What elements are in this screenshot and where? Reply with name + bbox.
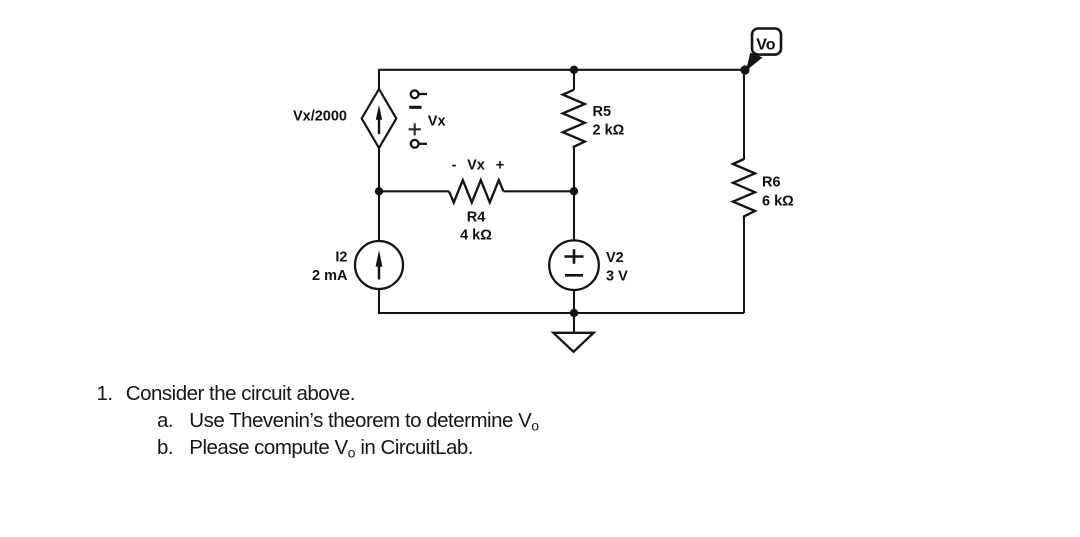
svg-text:3 V: 3 V (606, 269, 628, 285)
svg-text:Vo: Vo (756, 36, 775, 53)
wire middle horizontal left segment (left column to R4) (379, 190, 449, 192)
svg-text:V2: V2 (606, 250, 624, 266)
label - Vx + (across R4) (452, 158, 505, 174)
node junction dot left-middle (375, 187, 383, 195)
svg-text:2 kΩ: 2 kΩ (593, 123, 625, 139)
svg-text:R6: R6 (762, 175, 781, 191)
wire left column bottom (I2 to bottom wire) (378, 289, 380, 314)
voltmeter probe Vx (terminals) (409, 90, 427, 147)
label I2 2 mA (312, 249, 348, 284)
wire ground stem (573, 313, 575, 333)
wire top horizontal from left column to Vo node (379, 69, 745, 71)
wire right column top (Vo node to R6) (743, 70, 745, 160)
label V2 3 V (606, 250, 628, 285)
svg-text:Vx: Vx (428, 114, 446, 130)
question text line b (0, 435, 1, 437)
wire right column bottom (R6 to bottom wire) (743, 217, 745, 313)
resistor R6 (vertical zigzag) (733, 159, 755, 218)
voltage source V2 (circle with plus minus) (549, 240, 599, 290)
wire bottom horizontal from left column to right column (379, 312, 744, 314)
wire left column (mid node to current source I2) (378, 191, 380, 241)
node Vo junction dot top right (740, 65, 749, 74)
wire middle column top (top wire to R5) (573, 70, 575, 90)
question text line a (0, 408, 1, 410)
svg-text:R4: R4 (467, 210, 486, 226)
resistor R4 (horizontal zigzag) (449, 180, 504, 202)
wire left column top (top wire to dependent source) (378, 69, 380, 89)
svg-text:6 kΩ: 6 kΩ (762, 193, 794, 209)
resistor R5 (vertical zigzag) (563, 90, 585, 148)
svg-text:Vx/2000: Vx/2000 (293, 108, 347, 124)
label Vx/2000 (293, 108, 347, 124)
wire middle column bottom (V2 to bottom wire) (573, 290, 575, 313)
ground symbol (553, 333, 593, 352)
node junction dot bottom middle (570, 309, 578, 317)
label R5 2 kOhm (593, 104, 625, 139)
svg-text:Vx: Vx (467, 158, 485, 174)
wire middle horizontal right segment (R4 to middle column) (504, 190, 575, 192)
svg-text:I2: I2 (335, 249, 347, 265)
node junction dot middle-middle (570, 187, 578, 195)
question text line 1 (0, 381, 1, 383)
wire left column middle (dependent source to mid node) (378, 148, 380, 191)
label R4 4 kOhm (460, 210, 492, 244)
node junction dot top middle (R5 tap) (570, 66, 578, 74)
svg-text:4 kΩ: 4 kΩ (460, 228, 492, 244)
svg-text:+: + (496, 158, 504, 174)
svg-text:R5: R5 (593, 104, 612, 120)
svg-text:-: - (452, 158, 457, 174)
dependent source B1 (diamond, Vx/2000) (362, 89, 397, 148)
label Vx (probe) (428, 114, 446, 130)
node label Vo (flag box with pointer) (746, 29, 781, 71)
label R6 6 kOhm (762, 175, 794, 210)
wire middle column (mid node to V2) (573, 191, 575, 240)
svg-text:2 mA: 2 mA (312, 268, 348, 284)
current source I2 (circle with up arrow) (355, 241, 403, 289)
wire middle column (R5 to mid node) (573, 147, 575, 191)
